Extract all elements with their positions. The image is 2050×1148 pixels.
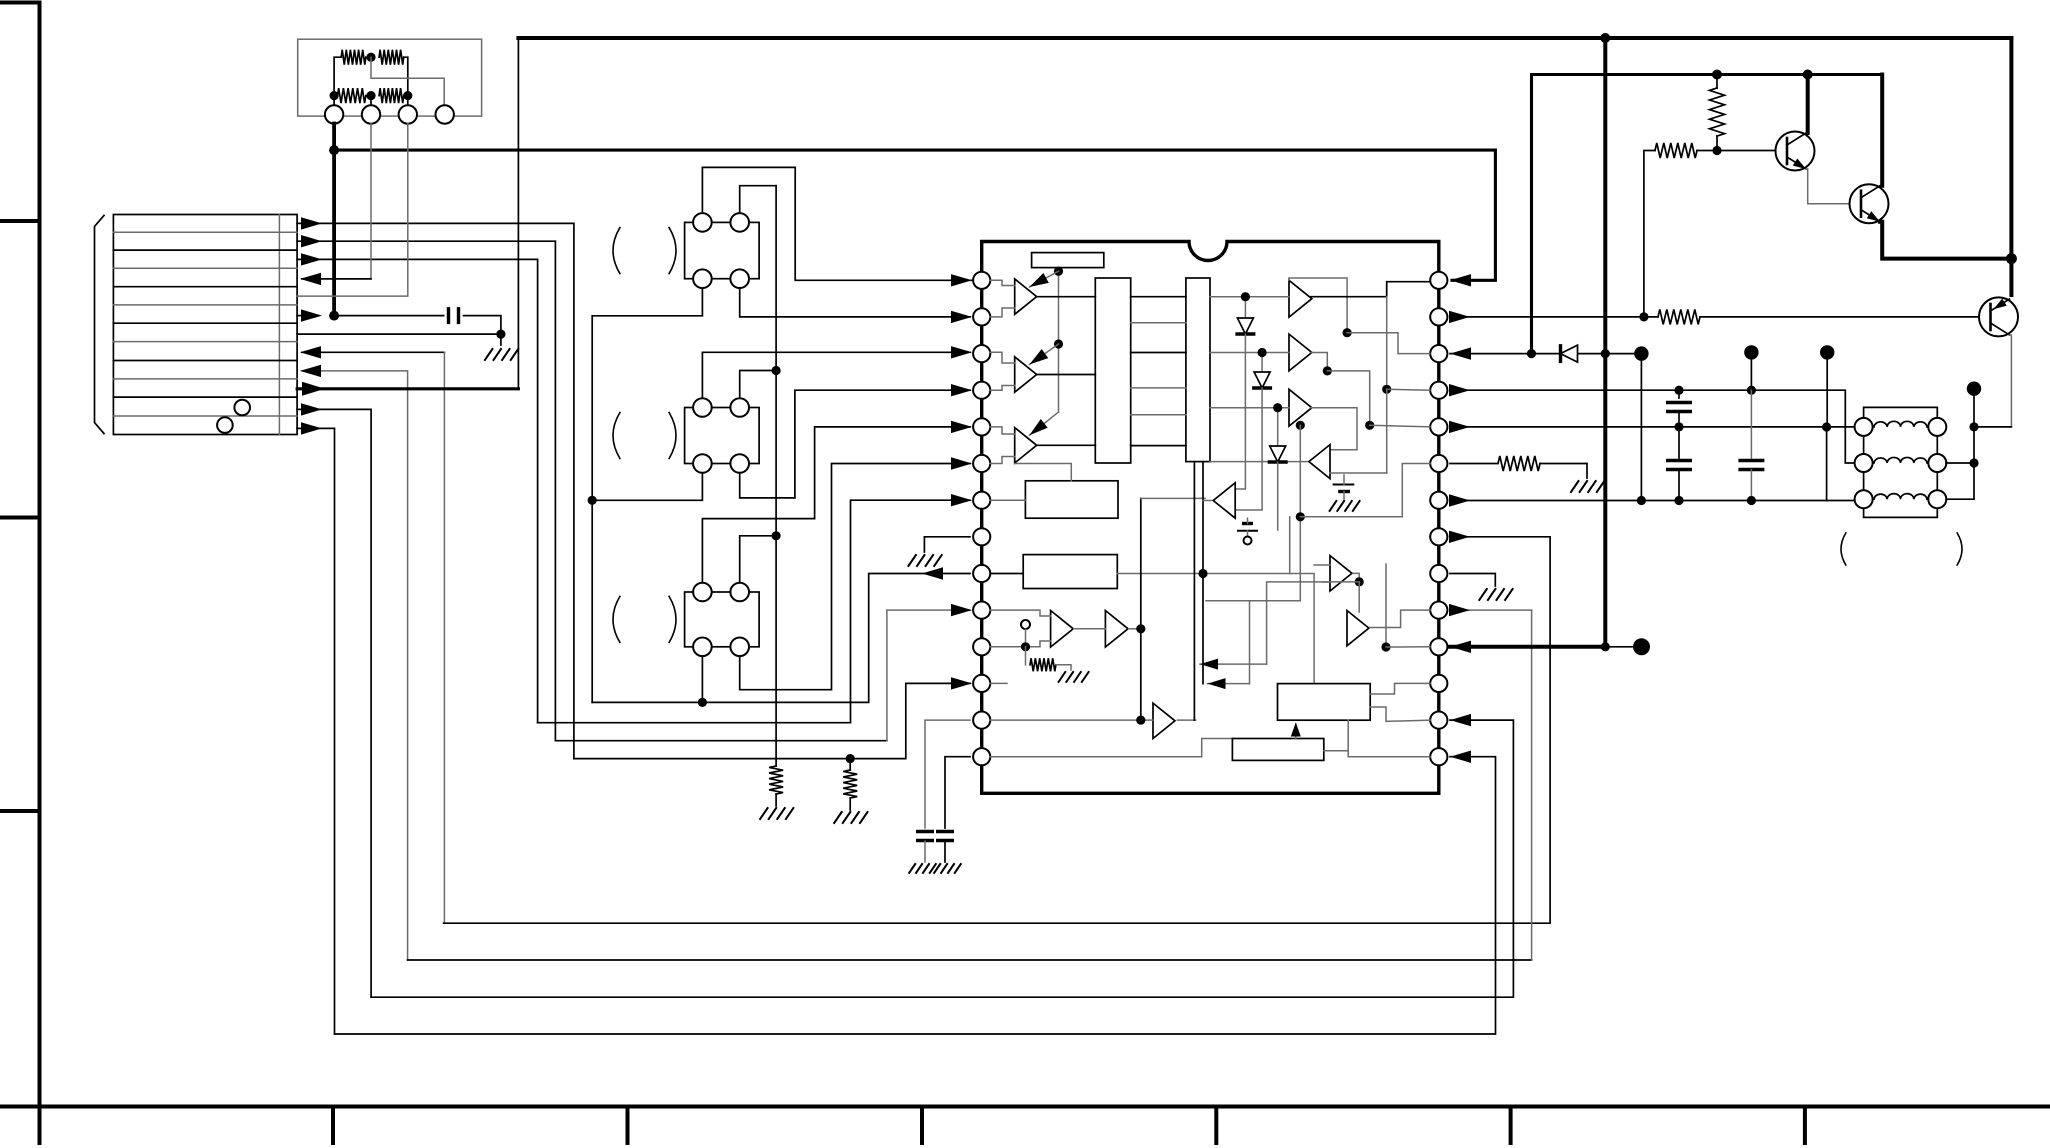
motor block inner divider — [278, 215, 280, 435]
wire sense2 to ground — [849, 798, 851, 810]
wire hall1 TL to pin 1L — [702, 167, 972, 280]
capacitor C1b — [1678, 427, 1680, 458]
node sense resistor tap — [846, 754, 855, 763]
wire R5 lead down — [1644, 151, 1655, 317]
node D-int2 tap — [1258, 348, 1267, 357]
wire R6 to ground — [1540, 464, 1587, 479]
arrow out pin 7R — [1449, 494, 1470, 506]
wire motor row12 out — [297, 428, 334, 1034]
motor block separator 7 — [113, 341, 297, 343]
wire Q1 base — [1717, 150, 1776, 152]
node pin5R junction — [1365, 421, 1374, 430]
wire pin 6R to R6 — [1450, 463, 1498, 465]
capacitor C-motor — [449, 307, 459, 324]
capacitor C1a — [1678, 390, 1680, 398]
connector pin 4 — [436, 105, 454, 123]
wire R1 left lead — [334, 57, 341, 95]
node bias tap 2 — [1054, 339, 1063, 348]
page border bottom tick 6 — [1803, 1107, 1807, 1144]
wire B2 input bracket — [1210, 352, 1289, 354]
wire motor row6 cap to ground — [464, 316, 501, 345]
resistor internal R-hys — [1025, 647, 1027, 665]
wire motor row6 out VCC — [334, 315, 444, 317]
wire row3 link to pin 7L — [538, 500, 970, 723]
wire coil top row to Q3 emitter — [1974, 426, 2011, 428]
buffer T3 — [1153, 703, 1175, 738]
node bias tap 1 — [1054, 267, 1063, 276]
comparator T5 — [1213, 483, 1235, 518]
arrow into pin 12L — [951, 677, 972, 689]
wire amp3 to matrix — [1037, 444, 1095, 446]
wire rect6 to pin 12R — [1370, 683, 1430, 694]
op-amp A1 hall amp — [1015, 279, 1037, 314]
wire row2 to connector pin 3 — [407, 96, 409, 106]
IC driver bus double vertical — [1193, 462, 1195, 720]
wire B3 input bracket — [1210, 407, 1289, 409]
arrow bias into amp3 — [1029, 412, 1058, 435]
wire TP4 column — [1946, 427, 1974, 499]
node row2 middle junction — [366, 91, 375, 100]
wire matrix link 2 — [1131, 322, 1186, 324]
node D-int3 tap — [1273, 403, 1282, 412]
wire pin 13L to filter cap — [925, 720, 970, 828]
arrow into pin 7L — [951, 494, 972, 506]
motor connector block body — [113, 215, 297, 435]
wire TP3 drop — [1826, 359, 1828, 427]
IC pin 20 right (pin 6R) — [1430, 455, 1447, 472]
wire bus riser x1289 — [1289, 517, 1291, 574]
wire hall common to pin 9L — [592, 574, 970, 703]
resistor R1 — [341, 50, 366, 65]
test point TP2 — [1744, 345, 1758, 359]
arrow into pin 6L — [951, 457, 972, 469]
motor block separator 11 — [113, 415, 297, 417]
wire matrix link 3 — [1131, 352, 1186, 354]
ground cap2 — [934, 864, 961, 873]
wire VCC drop right thick — [2009, 38, 2013, 259]
wire matrix link 1 — [1131, 296, 1186, 298]
arrow into pin 5L — [951, 421, 972, 433]
page border bottom tick 1 — [331, 1107, 335, 1144]
wire T3 output to bus — [1177, 719, 1195, 721]
motor block bracket — [95, 216, 105, 434]
wire motor supply row medium — [334, 149, 1495, 152]
wire T5 output — [1203, 500, 1211, 502]
coil L1 terminal right — [1928, 418, 1946, 436]
arrow into pin 3R — [1450, 347, 1471, 359]
node y516.8 junction — [1296, 512, 1305, 521]
wire rect7 to pin 14R — [1324, 751, 1430, 757]
arrow out pin 4R — [1449, 384, 1470, 396]
page border bottom tick 4 — [1214, 1107, 1218, 1144]
wire pin 10L internal stub — [990, 610, 1050, 616]
node motor VCC tap — [329, 311, 339, 321]
resistor network box outline — [298, 39, 482, 116]
wire pin 6R internal — [1300, 464, 1430, 517]
node cap2 top tap — [1747, 386, 1756, 395]
node hall2 TR bias junction — [772, 366, 781, 375]
page border bottom tick 2 — [626, 1107, 630, 1144]
wire hall2 BR to pin 4L — [740, 390, 970, 498]
comparator T1 hysteresis circle — [1021, 620, 1030, 629]
wire supply to pin 1R — [1452, 150, 1495, 280]
wire coil bottom left link — [1827, 500, 1855, 502]
wire B1 output to pin 1R — [1310, 282, 1430, 297]
ground internal R-hys — [1059, 672, 1089, 682]
buffer B5 — [1347, 611, 1369, 646]
motor block separator 4 — [113, 286, 297, 288]
node row2 right junction — [403, 91, 412, 100]
IC pin 5 left — [973, 418, 990, 435]
transistor Q3 — [1979, 297, 2018, 336]
wire motor row4 in from divider R — [370, 124, 372, 279]
wire rect6 bottom link — [1347, 720, 1349, 751]
wire hall3 BR to pin 6L — [740, 464, 970, 690]
wire connector pin1 drop thick — [332, 124, 336, 316]
resistor R-q3base — [1658, 309, 1700, 324]
page border left tick 3 — [0, 809, 40, 813]
page border left rule — [0, 3, 40, 1144]
wire hall1 BR to pin 2L — [740, 288, 970, 317]
wire bus row C y997 — [371, 720, 1513, 997]
arrow into pin 13R — [1450, 714, 1471, 726]
arrow rect7 to rect6 — [1295, 724, 1297, 739]
coil L2 terminal right — [1928, 454, 1946, 472]
wire B1 feedback loop — [1289, 278, 1347, 333]
coil right parenthesis — [1957, 533, 1962, 565]
IC pin 23 right (pin 9R) — [1430, 565, 1447, 582]
wire rect6 to pin 13R — [1370, 707, 1430, 721]
wire motor row2 out — [297, 241, 555, 741]
wire cap1 to ground — [924, 841, 926, 862]
arrow into pin 1R — [1450, 274, 1471, 286]
node row2 left junction — [330, 91, 339, 100]
hall H3 pin BR — [730, 638, 749, 657]
motor block separator 3 — [113, 267, 297, 269]
node TP1 bottom tap — [1637, 496, 1646, 505]
wire row2 to connector pin 2 — [370, 96, 372, 106]
wire motor row5 from divider R — [297, 124, 408, 297]
wire pin 8L to ground — [924, 537, 970, 552]
node diode row junction VB — [1527, 349, 1536, 358]
wire T1 to T2 — [1074, 628, 1106, 630]
arrow into pin 10L — [951, 604, 972, 616]
hall H2 pin BR — [730, 454, 749, 473]
ground sense2 — [834, 812, 867, 823]
node pin 11R rail junction — [1601, 642, 1610, 651]
wire R2 right lead — [404, 57, 408, 95]
wire B2 output node — [1310, 353, 1327, 371]
inductor L3 — [1874, 494, 1927, 500]
wire B3 node riser — [1206, 425, 1300, 600]
arrow out pin 2R — [1449, 311, 1470, 323]
hall H1 right parenthesis — [669, 228, 676, 274]
wire B3 output — [1310, 408, 1357, 450]
wire Q3 emitter drop — [2010, 335, 2012, 426]
wire pin 12L internal stub — [990, 682, 1007, 684]
op-amp A3 hall amp — [1015, 428, 1037, 463]
op-amp A1 input brackets — [990, 280, 1014, 285]
wire D-int3 down — [1277, 462, 1279, 530]
resistor R2 — [379, 50, 404, 65]
op-amp A3 input brackets — [990, 427, 1014, 434]
wire pin 5R internal — [1370, 425, 1430, 427]
resistor R-sense2 — [849, 759, 851, 770]
IC pin 2 left — [973, 308, 990, 325]
wire row2 link to pin 10L — [555, 740, 887, 742]
test point TP5 — [1633, 638, 1650, 655]
wire hall2 TR tap — [740, 371, 776, 399]
node pin 11L hysteresis junction — [1021, 642, 1030, 651]
wire matrix link 5 — [1131, 414, 1186, 416]
IC pin 17 right (pin 3R) — [1430, 345, 1447, 362]
coil L2 terminal left — [1855, 454, 1873, 472]
hall H1 pin BR — [730, 269, 749, 288]
wire T4 lower input — [1330, 472, 1387, 474]
coil block top loop — [1864, 407, 1938, 427]
IC pin 1 left — [973, 272, 990, 289]
arrow motor row12 — [301, 422, 322, 434]
coil L3 terminal left — [1855, 490, 1873, 508]
IC pin 16 right (pin 2R) — [1430, 308, 1447, 325]
IC pin 22 right (pin 8R) — [1430, 528, 1447, 545]
node diode row junction x1605 — [1601, 349, 1610, 358]
wire hall2 BL tap — [592, 473, 702, 500]
node supply row tap — [329, 145, 339, 155]
wire pin 7L internal stub — [990, 499, 1025, 501]
node C1 bottom tap — [1674, 496, 1683, 505]
page border bottom tick 3 — [920, 1107, 924, 1144]
coil L1 terminal left — [1855, 418, 1873, 436]
node C2 bottom tap — [1747, 496, 1756, 505]
wire pin 4R internal — [1387, 388, 1430, 391]
arrow motor row8 — [300, 346, 321, 358]
wire pin 11L internal stub — [990, 641, 1050, 647]
wire B1 input bracket — [1210, 296, 1289, 298]
IC U1 body outline — [982, 242, 1439, 794]
wire comparator bus top link — [1141, 497, 1205, 499]
wire hall1 TR to bias rail — [740, 186, 776, 213]
wire VCC to Q3 collector thick — [2009, 259, 2013, 295]
node base resistor junction — [1639, 312, 1648, 321]
transistor Q2 — [1850, 184, 1889, 223]
wire pin 2R to Q3 base — [1450, 316, 1658, 318]
wire amp2 to matrix — [1037, 374, 1095, 376]
ground cap1 — [909, 864, 936, 873]
wire R-hys to ground — [1056, 665, 1071, 670]
wire bus row D y1034 — [335, 757, 1496, 1034]
IC pin 10 left — [973, 602, 990, 619]
wire hall1 BL common — [592, 288, 702, 702]
wire rect4 top link — [1015, 464, 1072, 481]
IC pin 7 left — [973, 492, 990, 509]
wire C1b bottom — [1678, 470, 1680, 501]
arrow into pin 11R — [1450, 641, 1471, 653]
IC pin 25 right (pin 11R) — [1430, 638, 1447, 655]
arrow out pin 5R — [1449, 421, 1470, 433]
wire rect5 to logic rect6 — [1117, 574, 1314, 684]
IC block logic rect4 — [1025, 481, 1118, 518]
wire Q1 collector thick — [1806, 75, 1810, 134]
arrow motor row1 — [301, 217, 322, 229]
ground R6 — [1571, 481, 1604, 492]
hall H3 pin TR — [730, 583, 749, 602]
wire row2 to connector pin 1 — [333, 96, 335, 106]
connector pin 3 — [399, 105, 417, 123]
hall H1 pin BL — [693, 269, 712, 288]
node VCC rail junction at x1605 — [1600, 33, 1610, 43]
node B1 feedback junction — [1343, 328, 1352, 337]
output buffer B1 — [1289, 280, 1312, 317]
wire pin 11R thick feed — [1450, 645, 1605, 649]
wire T4 to pin6R riser link — [1386, 389, 1388, 473]
motor block separator 9 — [113, 378, 297, 380]
resistor R5b horizontal — [1655, 143, 1697, 158]
arrow out pin 9L — [922, 567, 943, 579]
IC block driver column rect3 — [1186, 278, 1210, 462]
wire pin 14L internal to rect7 — [990, 739, 1232, 757]
IC block timing rect7 — [1232, 739, 1323, 761]
wire hall3 TR tap — [740, 536, 776, 582]
coil right column link — [1936, 427, 1938, 499]
resistor R4 — [379, 88, 404, 103]
wire B4 output — [1353, 573, 1359, 582]
IC pin 11 left — [973, 638, 990, 655]
arrow into pin 4L — [951, 384, 972, 396]
wire hall2 TL to pin 3L — [702, 352, 970, 398]
arrow motor row6 — [301, 309, 322, 321]
buffer B4 — [1330, 556, 1352, 591]
IC block oscillator rect1 — [1032, 253, 1104, 268]
resistor R5 vertical — [1710, 88, 1725, 136]
arrow bias into amp1 — [1029, 271, 1058, 287]
arrow motor row10 — [302, 382, 325, 396]
IC pin 12 left — [973, 675, 990, 692]
wire Vcc2 vertical x1605 — [1603, 38, 1607, 647]
arrow out pin 8R — [1449, 531, 1470, 543]
wire tap from R1-R2 junction to connector pin 4 — [371, 57, 444, 107]
IC pin 9 left — [973, 565, 990, 582]
output buffer B2 — [1289, 334, 1312, 371]
hall sensor H1 box — [685, 222, 760, 278]
hall H3 pin TL — [693, 583, 712, 602]
ground hall bias — [760, 808, 793, 819]
node motor row7 junction — [496, 330, 505, 339]
motor index hole 1 — [234, 400, 250, 416]
wire matrix link 4 — [1131, 387, 1186, 389]
motor index hole 2 — [217, 417, 233, 433]
arrow into pin 14R — [1450, 751, 1471, 763]
IC pin 24 right (pin 10R) — [1430, 602, 1447, 619]
wire stub to TP5 — [1605, 646, 1634, 648]
IC pin 28 right (pin 14R) — [1430, 748, 1447, 765]
wire pin 3R internal — [1347, 333, 1430, 354]
wire T4 output — [1210, 461, 1307, 463]
IC pin 4 left — [973, 382, 990, 399]
IC pin 19 right (pin 5R) — [1430, 418, 1447, 435]
wire B2 to pin 5R riser — [1327, 371, 1369, 425]
node R5 junction — [1712, 146, 1721, 155]
coil left parenthesis — [1841, 533, 1846, 565]
diode D-int3 — [1277, 408, 1279, 446]
wire hall3 TL to pin 5L — [702, 427, 970, 582]
connector pin 1 — [325, 105, 343, 123]
resistor R6 — [1498, 456, 1540, 471]
node R1-R2 junction — [366, 53, 375, 62]
motor block separator 8 — [113, 360, 297, 362]
hall H2 pin BL — [693, 454, 712, 473]
wire hall bias resistor to ground — [775, 794, 777, 806]
wire R5b to junction — [1697, 150, 1717, 152]
wire motor row3 out — [297, 259, 537, 722]
wire pin 14L to filter cap2 — [945, 757, 970, 828]
motor block separator 2 — [113, 249, 297, 251]
hall H3 right parenthesis — [669, 596, 676, 642]
wire bus row B y960 — [408, 959, 1532, 961]
arrow motor row3 — [301, 253, 322, 265]
node B4 output — [1355, 577, 1364, 586]
wire pin 9R to ground — [1450, 574, 1495, 587]
comparator T1 with hysteresis — [1051, 611, 1074, 648]
wire Q2 collector thick — [1880, 75, 1884, 186]
wire pin 5R row — [1450, 426, 1855, 428]
wire cap2 to ground — [944, 841, 946, 862]
capacitor C-osc2 — [936, 832, 954, 841]
wire motor row1 out — [297, 223, 574, 758]
node VB rail junction Q1 collector — [1803, 70, 1813, 80]
wire amp1 to matrix — [1037, 296, 1095, 298]
wire coil mid row right link — [1946, 462, 1974, 464]
inductor L2 — [1874, 457, 1927, 463]
node C1 mid tap — [1674, 422, 1683, 431]
arrow out pin 10R — [1449, 604, 1470, 616]
inductor L1 — [1874, 421, 1927, 427]
wire Q2 emitter thick to VCC node — [1880, 222, 2011, 259]
wire pin 3R diode row — [1450, 353, 1641, 355]
arrow motor row9 — [300, 365, 321, 377]
arrow motor row11 — [301, 403, 322, 415]
IC pin 14 left — [973, 748, 990, 765]
wire pin 11R internal — [1386, 646, 1430, 648]
IC pin 6 left — [973, 455, 990, 472]
wire motor row9 in — [302, 371, 408, 960]
diode D-int1 — [1244, 297, 1246, 318]
wire motor row7 — [297, 333, 501, 335]
IC bias bus from rect1 — [1058, 268, 1060, 412]
wire VCC top rail — [518, 38, 2011, 389]
ground pin 8L — [908, 555, 941, 566]
node VB rail junction R5 — [1712, 70, 1722, 80]
diode D1 — [1561, 345, 1578, 362]
wire B1 node to pin 4R — [1386, 297, 1388, 390]
connector pin 2 — [362, 105, 380, 123]
wire pin 7R row — [1450, 500, 1827, 502]
arrow into pin 1L — [951, 274, 972, 286]
node VCC emitter junction — [2006, 253, 2017, 264]
ground T4 bypass — [1343, 492, 1345, 500]
page border left tick 2 — [0, 516, 40, 520]
wire pin 13L internal — [990, 719, 1153, 721]
wire TP1 drop — [1640, 360, 1642, 500]
hall sensor H3 box — [685, 592, 760, 647]
hall H2 left parenthesis — [613, 413, 620, 459]
capacitor C-osc1 — [916, 832, 934, 841]
motor block separator 6 — [113, 322, 297, 324]
diode D-int2 — [1261, 353, 1263, 373]
arrow feedback into bus A2 — [1249, 601, 1251, 684]
node rect5 bus junction — [1198, 569, 1207, 578]
node T2 output — [1136, 624, 1145, 633]
